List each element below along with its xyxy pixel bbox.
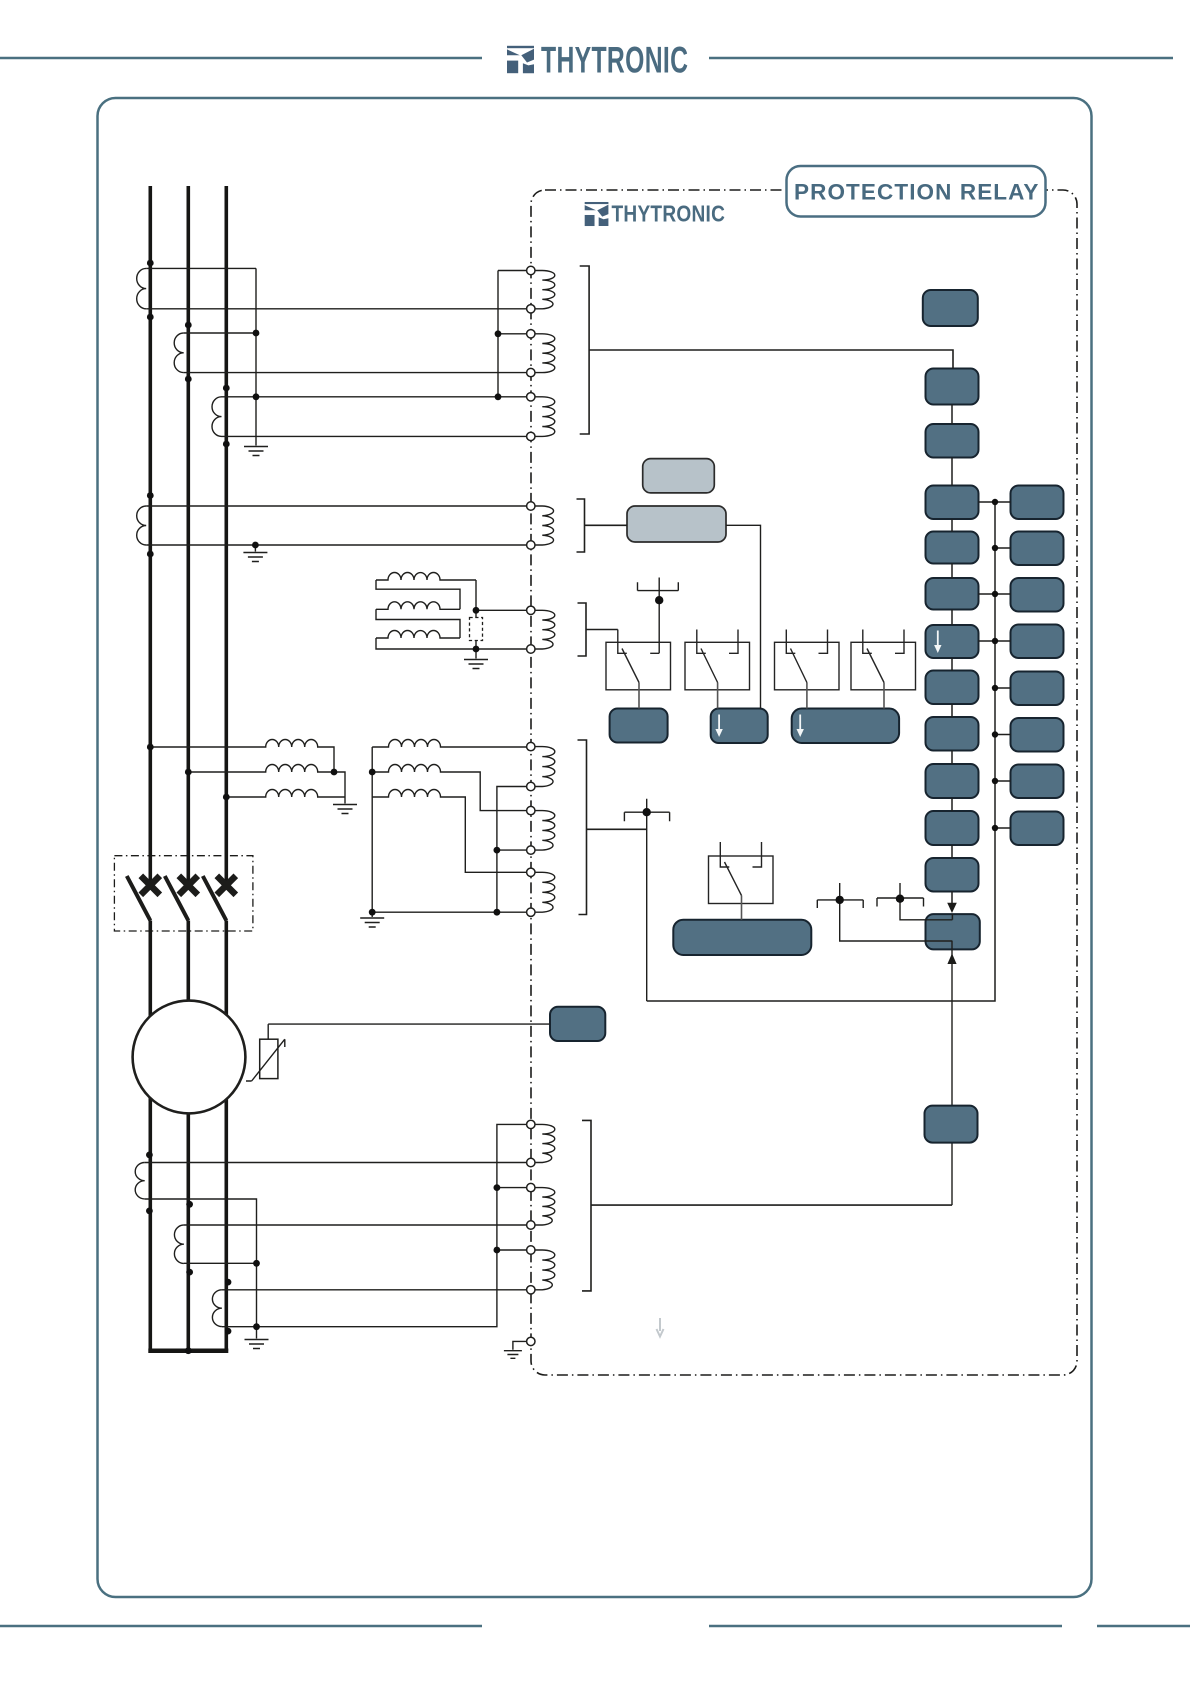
svg-text:THYTRONIC: THYTRONIC [612,201,726,227]
svg-text:PROTECTION RELAY: PROTECTION RELAY [794,179,1040,204]
svg-text:THYTRONIC: THYTRONIC [541,38,688,80]
